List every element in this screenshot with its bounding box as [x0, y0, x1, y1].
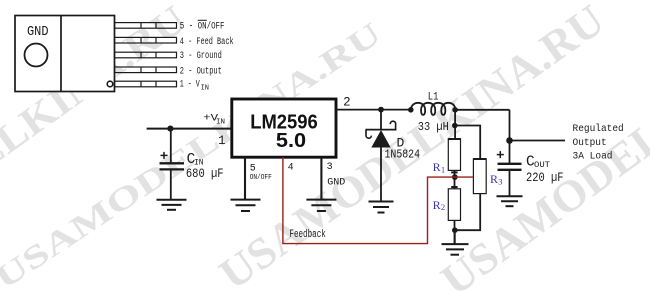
wire junction to ground — [454, 230, 456, 244]
CIN plus sign — [161, 152, 168, 159]
ground R2 — [442, 244, 469, 255]
svg-text:Regulated: Regulated — [573, 123, 624, 135]
wire COUT to ground — [509, 170, 511, 196]
svg-text:2 - Output: 2 - Output — [180, 67, 222, 78]
svg-text:3: 3 — [498, 176, 502, 186]
svg-text:33 µH: 33 µH — [418, 121, 449, 134]
label COUT — [526, 155, 550, 171]
resistor R2 — [448, 177, 460, 244]
label CIN — [187, 152, 204, 168]
node R2 R3 ground junction — [452, 227, 458, 233]
resistor R3 — [455, 159, 486, 230]
svg-text:4 - Feed Back: 4 - Feed Back — [180, 36, 234, 48]
lead pin1 — [115, 81, 177, 87]
wire L1 node down to R1 — [454, 110, 456, 139]
ground pin5 — [231, 200, 261, 211]
svg-text:2: 2 — [343, 95, 351, 109]
diode D 1N5824 — [366, 110, 397, 201]
svg-text:1: 1 — [218, 134, 226, 148]
wire CIN lead — [170, 129, 172, 163]
node L1 left — [408, 107, 414, 113]
inductor L1 — [411, 103, 455, 115]
wire output vertical — [509, 110, 511, 164]
svg-text:5.0: 5.0 — [276, 130, 306, 152]
COUT plus sign — [497, 151, 504, 158]
svg-text:5: 5 — [250, 163, 256, 174]
svg-text:3A Load: 3A Load — [573, 150, 613, 162]
node R3 branch — [452, 123, 458, 129]
svg-text:OUT: OUT — [534, 161, 550, 170]
svg-text:Feedback: Feedback — [289, 229, 326, 241]
svg-text:Output: Output — [573, 137, 607, 149]
wire to load — [510, 140, 566, 142]
pin label 5 ON/OFF — [180, 20, 225, 32]
wire pin5 — [244, 157, 246, 199]
lead pin3 — [115, 52, 177, 58]
watermark 1 — [0, 15, 387, 292]
svg-text:1N5824: 1N5824 — [385, 149, 421, 162]
wire CIN to ground — [170, 169, 172, 199]
svg-text:L1: L1 — [428, 92, 439, 104]
svg-text:GND: GND — [27, 24, 49, 40]
node diode junction — [378, 107, 384, 113]
label +VIN — [203, 112, 225, 126]
label R2 — [433, 198, 446, 212]
svg-text:5 - ON/OFF: 5 - ON/OFF — [180, 21, 225, 33]
svg-text:IN: IN — [216, 118, 225, 126]
svg-text:3: 3 — [327, 162, 333, 173]
node VIN junction — [167, 126, 173, 132]
svg-text:3 - Ground: 3 - Ground — [180, 50, 222, 62]
wire pin3 — [320, 157, 322, 199]
IC U1 LM2596 — [232, 99, 336, 157]
svg-text:220 µF: 220 µF — [526, 171, 564, 185]
svg-text:680 µF: 680 µF — [186, 167, 224, 181]
ground CIN — [157, 200, 187, 210]
node output junction — [506, 137, 513, 144]
svg-text:2: 2 — [441, 202, 445, 212]
svg-text:4: 4 — [288, 162, 294, 173]
capacitor COUT — [498, 164, 522, 170]
node feedback junction — [452, 174, 458, 180]
label Regulated Output 3A Load — [573, 123, 624, 162]
svg-text:ON/OFF: ON/OFF — [250, 174, 272, 182]
resistor R1 — [448, 139, 460, 177]
wire input VIN — [147, 128, 232, 130]
label R1 — [433, 160, 446, 174]
ground pin3 — [306, 200, 336, 211]
watermark 3 — [432, 0, 650, 292]
lead pin4 — [115, 37, 177, 43]
lead pin5 — [115, 23, 177, 29]
watermark 0 — [0, 0, 194, 292]
wire branch to R3 — [455, 126, 480, 159]
svg-text:IN: IN — [201, 85, 209, 93]
svg-text:1 - V: 1 - V — [180, 80, 200, 91]
ground diode — [369, 202, 394, 213]
svg-text:1: 1 — [441, 165, 445, 175]
lead pin2 — [115, 67, 177, 73]
package TO-220 body — [15, 16, 115, 92]
ground COUT — [497, 196, 523, 206]
svg-text:GND: GND — [327, 178, 345, 189]
wire feedback red — [283, 157, 474, 244]
capacitor CIN — [160, 163, 185, 169]
svg-text:R: R — [433, 198, 441, 212]
label R3 — [490, 172, 503, 186]
wire L1 to output node — [455, 109, 509, 111]
svg-text:R: R — [433, 160, 441, 174]
node L1 right — [452, 107, 458, 113]
label ON/OFF small — [250, 174, 272, 182]
svg-text:R: R — [490, 172, 498, 186]
wire pin2 output — [336, 109, 411, 111]
watermark 2 — [211, 0, 613, 292]
pin label 1 VIN — [180, 80, 209, 93]
